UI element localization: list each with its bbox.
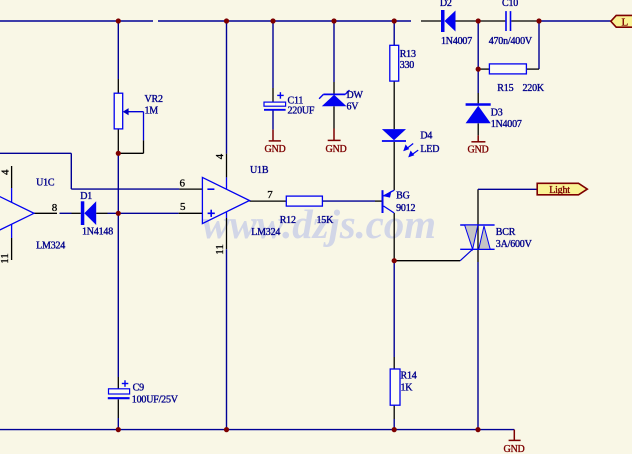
wire top rail segment 1	[0, 20, 153, 22]
svg-text:9012: 9012	[396, 203, 415, 214]
wire junction to C10	[478, 20, 505, 22]
resistor R12	[286, 196, 322, 206]
svg-text:LED: LED	[420, 144, 439, 155]
op-amp U1C	[0, 166, 34, 260]
wire VR2 wiper return horizontal	[118, 152, 143, 154]
wire bottom rail	[0, 429, 514, 431]
svg-text:1N4007: 1N4007	[491, 119, 522, 130]
wire junction to D3	[477, 69, 479, 93]
wire triac top to Light flag	[478, 188, 537, 190]
svg-text:GND: GND	[504, 444, 525, 454]
power port L flag	[611, 15, 632, 28]
wire C10 to junction	[511, 20, 539, 22]
wire U1B pin11 vertical	[226, 212, 228, 218]
svg-text:6: 6	[180, 178, 186, 190]
svg-text:C10: C10	[502, 0, 518, 9]
svg-text:3A/600V: 3A/600V	[496, 239, 533, 250]
node top rail x226	[224, 18, 229, 23]
svg-text:330: 330	[400, 60, 415, 71]
svg-text:LM324: LM324	[36, 240, 65, 251]
svg-text:4: 4	[214, 153, 226, 159]
svg-text:5: 5	[180, 201, 186, 213]
wire D1 to junction and pin5	[96, 212, 107, 214]
svg-text:BG: BG	[396, 190, 410, 201]
ground D3	[471, 135, 485, 141]
wire D3 to gnd	[477, 123, 479, 135]
ground DW	[328, 129, 341, 141]
resistor R14	[390, 369, 400, 405]
wire D4 to transistor emitter	[393, 142, 395, 190]
wire R14 to bottom rail	[393, 405, 395, 419]
svg-text:U1B: U1B	[250, 165, 269, 176]
node D1 output	[116, 211, 121, 216]
wire gate junction to triac gate	[394, 260, 460, 262]
ground C11	[269, 130, 281, 141]
diode D3	[466, 105, 491, 124]
wire collector down to gate junction	[393, 213, 395, 261]
wire through triac	[477, 225, 479, 249]
node bottom rail x478	[475, 427, 480, 432]
diode D2	[441, 10, 456, 32]
capacitor C10	[506, 11, 511, 31]
wire junction to L flag	[539, 20, 611, 22]
node bottom rail x118	[116, 427, 121, 432]
ground bottom right	[509, 430, 521, 441]
wire junction to R15	[478, 68, 489, 70]
svg-text:C9: C9	[133, 382, 144, 393]
wire to pin6	[71, 188, 179, 190]
wire vertical to DW	[333, 21, 335, 82]
wire C11 to gnd	[272, 111, 274, 130]
wire DW to gnd	[333, 106, 335, 128]
wire vertical to VR2	[117, 21, 119, 79]
svg-text:GND: GND	[326, 144, 347, 155]
potentiometer VR2	[114, 93, 123, 129]
svg-text:6V: 6V	[347, 102, 360, 113]
transistor BG 9012	[382, 190, 395, 213]
VR2 wiper arrow head	[123, 108, 129, 115]
svg-text:1K: 1K	[401, 383, 414, 394]
capacitor C9	[108, 380, 130, 398]
led D4	[382, 129, 418, 157]
wire R15 to right vertical	[526, 68, 539, 70]
svg-text:11: 11	[0, 253, 11, 264]
svg-text:7: 7	[267, 189, 273, 201]
wire to D1	[60, 212, 72, 214]
pin lead C9 top	[117, 377, 119, 389]
wire top rail segment 3 to D2	[421, 20, 441, 22]
pin lead C9 bottom	[117, 399, 119, 418]
wire junction down to D3 branch	[477, 21, 479, 69]
wire triac gate diagonal	[460, 249, 472, 260]
svg-text:R13: R13	[400, 49, 416, 60]
capacitor C11	[264, 92, 286, 110]
wire corner down	[70, 153, 72, 189]
node top rail x334	[331, 18, 336, 23]
wire U1B output to R12	[250, 200, 287, 202]
wire top rail segment 2	[158, 20, 411, 22]
svg-text:D3: D3	[491, 107, 503, 118]
op-amp U1B	[202, 177, 249, 223]
svg-text:U1C: U1C	[36, 178, 55, 189]
wire left feed to U1B pin6	[0, 152, 71, 154]
svg-text:15K: 15K	[317, 215, 335, 226]
svg-text:LM324: LM324	[251, 227, 280, 238]
svg-text:DW: DW	[347, 90, 364, 101]
wire vertical to R13	[393, 21, 395, 45]
svg-text:220UF: 220UF	[288, 106, 315, 117]
wire junction to R14	[393, 261, 395, 357]
svg-text:220K: 220K	[523, 83, 545, 94]
node top rail x118	[116, 18, 121, 23]
wire U1C output to D1	[34, 212, 57, 214]
node top rail x273	[270, 18, 275, 23]
svg-text:8: 8	[52, 202, 58, 214]
svg-text:L: L	[622, 17, 629, 29]
wire C9 to bottom rail	[117, 418, 119, 430]
svg-text:GND: GND	[265, 144, 286, 155]
wire R13 to D4	[393, 81, 395, 129]
pin5 lead	[179, 212, 203, 214]
node R15 left	[476, 67, 481, 72]
wire VR2 wiper arm	[127, 111, 144, 113]
wire VR2 to C9	[117, 129, 119, 153]
svg-text:100UF/25V: 100UF/25V	[132, 394, 179, 405]
node VR2 wiper	[116, 151, 121, 156]
triac BCR	[460, 225, 494, 249]
node top rail x539	[536, 18, 541, 23]
wire triac to bottom rail	[477, 249, 479, 262]
svg-text:D4: D4	[420, 131, 432, 142]
svg-text:D2: D2	[440, 0, 452, 9]
node bottom rail x394	[392, 427, 397, 432]
pin6 lead	[179, 188, 202, 190]
svg-text:470n/400V: 470n/400V	[489, 36, 533, 47]
wire VR2 wiper return vertical	[143, 112, 145, 141]
resistor R13	[390, 45, 399, 81]
svg-text:1N4007: 1N4007	[441, 36, 472, 47]
node gate junction	[392, 258, 397, 263]
svg-text:D1: D1	[80, 191, 92, 202]
svg-text:R12: R12	[280, 215, 296, 226]
svg-text:VR2: VR2	[145, 94, 163, 105]
node top rail x394	[392, 18, 397, 23]
node bottom rail x226	[224, 427, 229, 432]
svg-text:R14: R14	[401, 370, 417, 381]
diode D1	[81, 201, 96, 225]
svg-text:GND: GND	[468, 144, 489, 155]
node top rail x478	[476, 18, 481, 23]
svg-text:BCR: BCR	[496, 227, 516, 238]
svg-text:R15: R15	[497, 83, 513, 94]
wire triac top vertical	[477, 189, 479, 225]
wire vertical to C11	[272, 21, 274, 88]
svg-text:4: 4	[0, 169, 11, 175]
svg-text:Light: Light	[549, 185, 570, 196]
zener DW	[319, 90, 349, 106]
resistor R15	[489, 64, 526, 74]
wire R12 to transistor base	[322, 200, 375, 202]
wire R15 right vertical	[538, 21, 540, 69]
svg-text:1M: 1M	[145, 106, 159, 117]
svg-text:1N4148: 1N4148	[82, 227, 113, 238]
wire U1B pin4 vertical	[226, 21, 228, 154]
svg-text:11: 11	[214, 244, 226, 255]
wire D2 to junction	[456, 20, 479, 22]
net label Light flag	[537, 183, 587, 196]
